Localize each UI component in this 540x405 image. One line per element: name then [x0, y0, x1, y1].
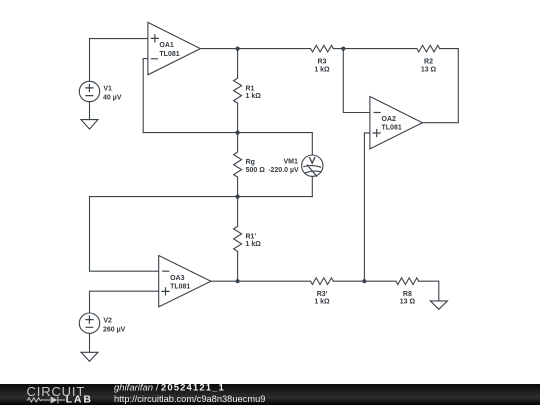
svg-text:260 µV: 260 µV — [103, 326, 126, 333]
svg-text:http://circuitlab.com/c9a8n38u: http://circuitlab.com/c9a8n38uecmu9 — [114, 394, 265, 404]
resistor R3' — [311, 278, 334, 285]
wire R8 to ground — [419, 281, 439, 301]
svg-text:OA3: OA3 — [170, 275, 185, 282]
logo diode arrow — [51, 397, 58, 404]
svg-text:1 kΩ: 1 kΩ — [246, 93, 262, 100]
node dot Rg bottom — [236, 195, 240, 199]
svg-text:1 kΩ: 1 kΩ — [246, 241, 262, 248]
svg-text:OA2: OA2 — [382, 116, 397, 123]
svg-text:TL081: TL081 — [159, 51, 179, 58]
resistor R1' — [234, 197, 242, 282]
node dot R1 bottom — [236, 131, 240, 135]
ground right of R8 — [430, 301, 447, 309]
voltage source V1 — [79, 81, 99, 101]
svg-text:R1: R1 — [246, 85, 255, 92]
svg-text:LAB: LAB — [66, 394, 93, 405]
wire R2 to OA2 output — [423, 49, 459, 123]
wire feedback node to OA2 -in — [343, 49, 370, 113]
svg-text:TL081: TL081 — [170, 283, 190, 290]
svg-text:500 Ω: 500 Ω — [246, 167, 266, 174]
svg-text:Rg: Rg — [246, 159, 255, 166]
svg-text:13 Ω: 13 Ω — [421, 66, 437, 73]
wire V2 bottom — [89, 333, 91, 352]
op-amp OA3 — [159, 256, 211, 307]
svg-text:V2: V2 — [103, 317, 112, 324]
wire R3 to R2 — [333, 48, 417, 50]
wire OA2 +in drop — [364, 133, 370, 281]
op-amp OA1 — [148, 22, 201, 74]
voltage source V2 — [79, 313, 99, 333]
svg-text:R3': R3' — [317, 291, 328, 298]
svg-text:-220.0 µV: -220.0 µV — [268, 167, 299, 174]
svg-text:13 Ω: 13 Ω — [400, 299, 416, 306]
node dot OA2 +in — [362, 279, 366, 283]
resistor R1 — [234, 49, 242, 133]
resistor R8 — [396, 278, 419, 285]
wire OA1 output rail — [200, 48, 310, 50]
resistor Rg — [234, 133, 242, 197]
wire VM1 top — [311, 133, 313, 155]
resistor R3 — [311, 45, 334, 52]
ground under V1 — [81, 120, 98, 129]
wire V1 bottom — [89, 102, 91, 120]
node dot R1 top — [236, 47, 240, 51]
wire R3' to R8 — [333, 280, 396, 282]
footer bar — [0, 384, 540, 405]
node dot R1' bottom — [236, 279, 240, 283]
svg-text:R2: R2 — [424, 58, 433, 65]
resistor R2 — [417, 45, 440, 52]
wire OA1 +in — [90, 38, 148, 40]
wire V1 top — [89, 39, 91, 82]
wire left drop to OA3 -in — [90, 197, 159, 272]
wire OA3 +in — [90, 291, 159, 313]
op-amp OA2 — [370, 97, 423, 149]
svg-text:ghifarifan / 20524121_1: ghifarifan / 20524121_1 — [114, 383, 225, 394]
svg-text:1 kΩ: 1 kΩ — [314, 299, 330, 306]
svg-text:VM1: VM1 — [283, 159, 298, 166]
node dot feedback — [341, 47, 345, 51]
ground under V2 — [81, 352, 98, 361]
wire rail node C (y=196.6) — [90, 196, 313, 198]
wire OA1 -in feedback drop — [143, 59, 148, 133]
svg-text:V1: V1 — [103, 85, 112, 92]
svg-text:40 µV: 40 µV — [103, 95, 122, 102]
svg-text:TL081: TL081 — [382, 125, 402, 132]
svg-text:R1': R1' — [246, 234, 257, 241]
logo resistor glyph — [27, 397, 65, 404]
wire rail node B (y=132.6) — [143, 132, 312, 134]
wire OA3 output rail — [211, 280, 311, 282]
svg-text:R3: R3 — [318, 58, 327, 65]
svg-text:R8: R8 — [403, 291, 412, 298]
svg-text:OA1: OA1 — [159, 42, 174, 49]
wire VM1 bottom — [311, 176, 313, 196]
svg-text:1 kΩ: 1 kΩ — [314, 66, 330, 73]
voltmeter VM1 — [302, 155, 323, 176]
